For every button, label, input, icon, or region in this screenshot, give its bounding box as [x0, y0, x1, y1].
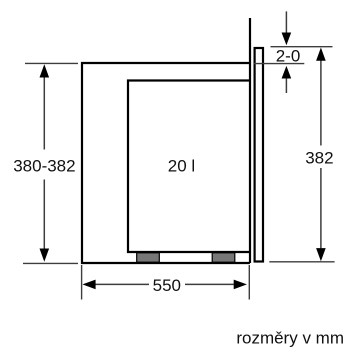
svg-text:550: 550 [153, 276, 181, 295]
arrowhead up (382 top) [316, 48, 326, 61]
arrowhead right (550) [234, 280, 247, 290]
svg-text:382: 382 [305, 148, 333, 167]
cavity box (20 l) [128, 81, 250, 253]
dimension 382 vertical line lower segment [320, 168, 322, 250]
svg-text:2-0: 2-0 [276, 47, 301, 66]
extension line below 2-0 [254, 63, 304, 65]
extension line bottom (for 382) [269, 261, 334, 263]
svg-text:20 l: 20 l [168, 157, 195, 176]
svg-text:rozměry v mm: rozměry v mm [236, 329, 344, 348]
dimension 382 vertical line upper segment [320, 59, 322, 146]
dimension 550 line right segment [185, 283, 235, 285]
extension line top (for 2-0 and 382) [271, 46, 333, 48]
dimension 550 line left segment [95, 283, 150, 285]
front trim frame (narrow rectangle) [255, 48, 263, 262]
arrowhead up (380-382 top) [40, 64, 50, 77]
extension line bottom-right vertical (for 550) [248, 265, 250, 300]
foot left (gray) [137, 253, 160, 262]
arrowhead down (380-382 bottom) [40, 249, 50, 262]
arrowhead down (2-0 top) [282, 33, 292, 46]
arrow up to 2-0 (line) [285, 77, 287, 93]
arrowhead left (550) [82, 280, 95, 290]
dimension 380-382 vertical line lower segment [43, 180, 45, 252]
wall line above niche (right vertical, full height of niche side) [249, 18, 251, 263]
arrowhead down (382 bottom) [316, 248, 326, 261]
dimension 380-382 vertical line upper segment [43, 75, 45, 150]
arrow down to 2-0 (line) [285, 11, 287, 34]
extension line bottom-left vertical (for 550) [81, 265, 83, 300]
cabinet niche outline [82, 63, 250, 263]
extension line bottom-left (for 380-382) [23, 262, 78, 264]
arrowhead up (2-0 bottom) [282, 66, 292, 79]
foot right (gray) [212, 253, 235, 262]
extension line top-left (for 380-382) [25, 62, 78, 64]
svg-text:380-382: 380-382 [13, 156, 75, 175]
